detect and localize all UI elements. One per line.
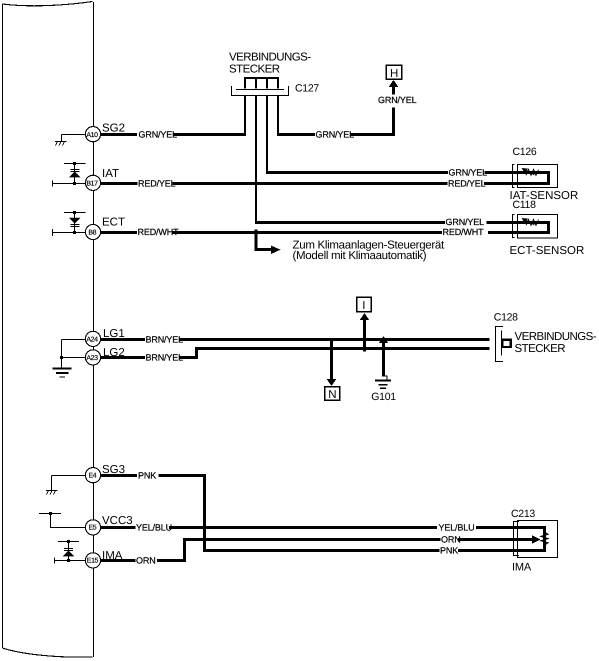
- wire branch to A/C control unit: [256, 233, 272, 250]
- arrow up into I: [360, 313, 369, 320]
- svg-text:VCC3: VCC3: [102, 515, 133, 527]
- wire PNK pin E4 to C213: [101, 476, 519, 551]
- wire BRN/YEL pin A23 LG2 to C128: [101, 349, 490, 358]
- svg-text:VERBINDUNGS-: VERBINDUNGS-: [229, 52, 311, 64]
- svg-text:H: H: [390, 68, 398, 80]
- arrow up to LG1 wire from G101: [379, 336, 388, 343]
- junction dot N branch: [330, 338, 333, 341]
- wire GRN/YEL pin A10 to connector C127: [101, 95, 247, 135]
- svg-text:ORN: ORN: [441, 535, 461, 545]
- wire RED/YEL pin B17 to IAT sensor: [101, 182, 519, 185]
- junction dots E15 clamp: [67, 540, 70, 562]
- ECT sensor body C118: [518, 215, 558, 239]
- svg-text:RED/YEL: RED/YEL: [448, 179, 486, 189]
- svg-text:ECT: ECT: [102, 216, 125, 228]
- svg-text:ECT-SENSOR: ECT-SENSOR: [510, 245, 585, 257]
- internal clamp circuit at IMA pin E15: [55, 542, 86, 564]
- svg-text:YEL/BLU: YEL/BLU: [439, 523, 475, 533]
- svg-text:C127: C127: [295, 83, 319, 95]
- svg-text:A24: A24: [86, 337, 98, 344]
- pin circle E15: [85, 553, 100, 568]
- internal rail at VCC3 pin E5: [39, 514, 86, 528]
- internal ground wire LG1/LG2: [62, 340, 86, 369]
- svg-text:PNK: PNK: [138, 471, 156, 481]
- wire BRN/YEL pin A24 LG1 to C128: [101, 338, 490, 341]
- svg-text:RED/WHT: RED/WHT: [443, 227, 485, 237]
- ECU torn top edge: [3, 2, 93, 6]
- svg-text:LG1: LG1: [103, 328, 125, 340]
- pin circle A24: [85, 331, 100, 346]
- connector C126 bracket: [513, 165, 515, 188]
- svg-text:STECKER: STECKER: [515, 343, 566, 355]
- internal ground branch wire SG2: [62, 135, 86, 142]
- svg-text:IMA: IMA: [102, 550, 123, 562]
- svg-text:SG3: SG3: [102, 464, 125, 476]
- wire RED/WHT pin B8 to ECT sensor: [101, 231, 519, 234]
- svg-text:B17: B17: [86, 180, 98, 187]
- svg-text:BRN/YEL: BRN/YEL: [146, 353, 184, 363]
- svg-text:E4: E4: [89, 473, 97, 480]
- connector C128 symbol: [496, 327, 511, 362]
- svg-text:C126: C126: [513, 146, 537, 158]
- svg-text:BRN/YEL: BRN/YEL: [146, 335, 184, 345]
- junction dot RED/WHT branch to A/C: [254, 230, 257, 233]
- ECU right border pin rail: [93, 2, 95, 657]
- svg-text:IAT: IAT: [102, 168, 119, 180]
- wire GRN/YEL C127 pin2 to ECT sensor: [255, 95, 549, 233]
- connector C118 bracket: [513, 215, 515, 238]
- arrow right to A/C control unit: [271, 246, 281, 255]
- wire branch up to I: [363, 319, 366, 352]
- pin circle B17: [85, 175, 100, 190]
- svg-text:VERBINDUNGS-: VERBINDUNGS-: [515, 331, 597, 343]
- pin circle E5: [85, 520, 100, 535]
- IAT sensor body C126: [518, 165, 558, 188]
- wire GRN/YEL C127 pin3 to IAT sensor: [266, 95, 549, 184]
- junction dots B8 clamp: [73, 211, 76, 234]
- svg-text:I: I: [362, 300, 365, 312]
- svg-text:B8: B8: [88, 230, 96, 237]
- svg-text:STECKER: STECKER: [229, 64, 280, 76]
- connector C213 bracket: [514, 522, 520, 556]
- arrow up into H: [389, 80, 398, 87]
- svg-text:E5: E5: [89, 525, 97, 532]
- junction dot LG2 ground: [60, 356, 63, 359]
- svg-text:RED/YEL: RED/YEL: [138, 179, 176, 189]
- svg-text:E15: E15: [87, 558, 99, 565]
- svg-text:RED/WHT: RED/WHT: [138, 227, 180, 237]
- svg-text:GRN/YEL: GRN/YEL: [139, 130, 178, 140]
- off-page reference box N: [325, 387, 340, 401]
- arrow down into N: [327, 379, 336, 386]
- chassis ground symbol at SG3: [46, 491, 58, 495]
- svg-text:YEL/BLU: YEL/BLU: [136, 523, 172, 533]
- pin circle E4: [85, 468, 100, 483]
- internal ground branch wire SG3: [52, 476, 86, 491]
- svg-text:A10: A10: [86, 132, 98, 139]
- earth ground symbol LG: [53, 369, 72, 378]
- wire branch down to G101: [382, 341, 385, 377]
- ground symbol G101: [375, 376, 391, 388]
- thermistor mark inside IAT sensor: [525, 169, 539, 175]
- wire ORN pin E15 to C213: [101, 540, 533, 561]
- off-page reference box H: [386, 65, 401, 79]
- chassis ground symbol at SG2: [55, 142, 67, 146]
- svg-text:LG2: LG2: [103, 347, 125, 359]
- wire YEL/BLU pin E5 to C213: [101, 528, 545, 551]
- svg-text:GRN/YEL: GRN/YEL: [446, 217, 485, 227]
- svg-text:IMA: IMA: [512, 561, 532, 573]
- thermistor mark inside ECT sensor: [525, 219, 539, 225]
- svg-text:GRN/YEL: GRN/YEL: [378, 95, 417, 105]
- svg-text:SG2: SG2: [102, 123, 125, 135]
- arrow right IMA wiper: [532, 535, 541, 543]
- wire GRN/YEL connector C127 to H: [277, 86, 394, 135]
- off-page reference box I: [357, 297, 372, 312]
- ECU left border: [2, 4, 4, 648]
- svg-text:GRN/YEL: GRN/YEL: [449, 168, 488, 178]
- svg-text:G101: G101: [371, 391, 396, 403]
- pin circle B8: [85, 224, 100, 239]
- svg-text:C213: C213: [511, 508, 535, 520]
- svg-text:GRN/YEL: GRN/YEL: [316, 130, 355, 140]
- junction dots B17 clamp: [73, 162, 76, 185]
- internal clamp circuit at ECT pin B8: [53, 213, 86, 237]
- pin circle A23: [85, 350, 100, 365]
- svg-text:PNK: PNK: [440, 546, 458, 556]
- svg-text:(Modell mit Klimaautomatik): (Modell mit Klimaautomatik): [293, 250, 427, 262]
- pin circle A10: [85, 127, 100, 142]
- connector C127 symbol: [232, 77, 289, 96]
- internal clamp circuit at IAT pin B17: [53, 164, 86, 187]
- svg-text:C128: C128: [494, 311, 518, 323]
- ECU torn bottom edge: [3, 648, 93, 657]
- IMA sensor body C213: [518, 521, 558, 558]
- junction dot VCC3 rail: [49, 512, 52, 515]
- svg-text:A23: A23: [86, 355, 98, 362]
- svg-text:C118: C118: [513, 199, 537, 211]
- svg-text:ORN: ORN: [136, 556, 156, 566]
- svg-text:N: N: [328, 389, 336, 401]
- wire branch down to N: [330, 340, 333, 382]
- zigzag on IMA track: [541, 532, 548, 545]
